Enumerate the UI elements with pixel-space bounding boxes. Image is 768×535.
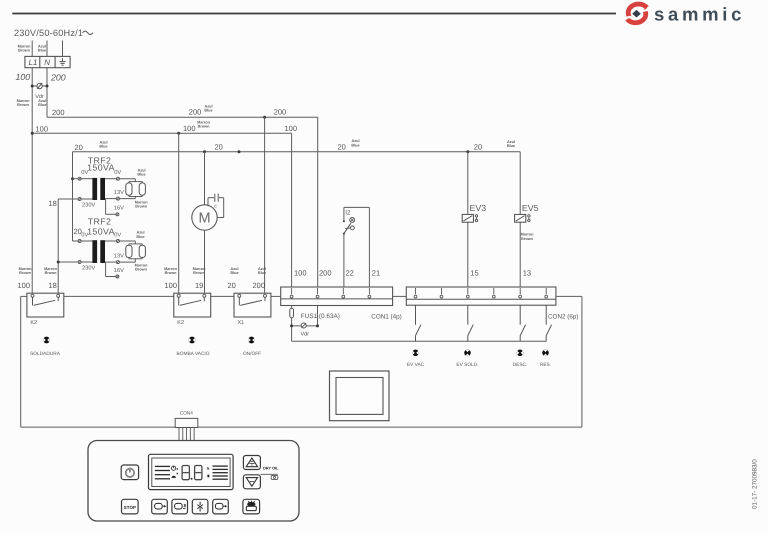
svg-text:EV5: EV5 — [522, 203, 539, 213]
svg-text:200: 200 — [50, 73, 66, 83]
svg-text:0V: 0V — [81, 170, 88, 176]
svg-text:0V: 0V — [114, 233, 121, 239]
svg-text:200: 200 — [319, 268, 332, 277]
svg-text:150VA: 150VA — [87, 226, 115, 236]
svg-text:Brown: Brown — [135, 205, 147, 209]
svg-text:13V: 13V — [114, 253, 124, 259]
svg-text:Blue: Blue — [258, 271, 266, 275]
svg-text:EV VAC: EV VAC — [407, 362, 425, 368]
svg-text:230V: 230V — [82, 203, 95, 209]
svg-text:18: 18 — [49, 199, 57, 208]
svg-text:DESC.: DESC. — [513, 362, 528, 368]
svg-text:Brown: Brown — [17, 103, 29, 107]
svg-text:FUS1 (0.63A): FUS1 (0.63A) — [301, 313, 340, 320]
svg-text:CON2 (6p): CON2 (6p) — [548, 313, 578, 320]
svg-text:20: 20 — [474, 143, 482, 152]
svg-text:200: 200 — [274, 107, 287, 116]
svg-text:Blue: Blue — [351, 143, 359, 147]
svg-text:I2: I2 — [345, 209, 351, 216]
svg-text:Brown: Brown — [19, 271, 31, 275]
svg-text:STOP: STOP — [124, 505, 136, 510]
svg-text:DRY OIL: DRY OIL — [263, 466, 279, 471]
svg-text:Vdr: Vdr — [301, 332, 310, 338]
svg-text:20: 20 — [215, 142, 223, 151]
svg-text:Blue: Blue — [230, 271, 238, 275]
svg-text:$: $ — [184, 503, 187, 508]
svg-text:Brown: Brown — [521, 237, 533, 241]
svg-text:EV SOLD.: EV SOLD. — [456, 362, 478, 368]
svg-text:0V: 0V — [81, 233, 88, 239]
svg-text:Brown: Brown — [45, 271, 57, 275]
svg-text:Blue: Blue — [38, 49, 46, 53]
svg-text:Brown: Brown — [193, 271, 205, 275]
svg-text:EV3: EV3 — [470, 203, 487, 213]
svg-text:200: 200 — [189, 107, 202, 116]
svg-text:100: 100 — [18, 281, 31, 290]
svg-text:200: 200 — [52, 108, 65, 117]
svg-text:sammic: sammic — [654, 4, 745, 25]
svg-text:CON1 (4p): CON1 (4p) — [371, 313, 401, 320]
svg-text:20: 20 — [338, 142, 346, 151]
svg-text:20: 20 — [228, 281, 236, 290]
svg-text:Blue: Blue — [204, 109, 212, 113]
svg-text:20: 20 — [75, 143, 83, 152]
svg-text:18: 18 — [49, 281, 57, 290]
svg-text:TRF2: TRF2 — [88, 217, 112, 227]
svg-text:100: 100 — [294, 268, 307, 277]
svg-text:SOLDADURA: SOLDADURA — [30, 351, 61, 357]
svg-text:N: N — [44, 58, 50, 67]
svg-text:RES.: RES. — [540, 362, 551, 368]
svg-text:L1: L1 — [29, 58, 38, 67]
svg-text:150VA: 150VA — [87, 162, 115, 172]
svg-text:M: M — [198, 211, 210, 227]
svg-text:100: 100 — [165, 281, 178, 290]
svg-text:21: 21 — [372, 268, 380, 277]
svg-text:Brown: Brown — [165, 271, 177, 275]
svg-text:Blue: Blue — [507, 144, 515, 148]
svg-text:Blue: Blue — [137, 173, 145, 177]
svg-text:13: 13 — [523, 268, 531, 277]
svg-text:c: c — [214, 203, 217, 209]
svg-text:13V: 13V — [114, 190, 124, 196]
svg-text:01-17- 2700983/0: 01-17- 2700983/0 — [752, 459, 759, 509]
svg-text:100: 100 — [36, 124, 49, 133]
svg-text:16V: 16V — [114, 268, 124, 274]
svg-text:Brown: Brown — [18, 49, 30, 53]
svg-text:CON4: CON4 — [180, 410, 193, 415]
svg-text:0V: 0V — [114, 170, 121, 176]
svg-text:230V: 230V — [82, 266, 95, 272]
svg-text:X1: X1 — [238, 320, 245, 326]
svg-text:K2: K2 — [177, 320, 184, 326]
svg-text:Brown: Brown — [135, 268, 147, 272]
svg-text:100: 100 — [16, 72, 31, 82]
svg-text:K2: K2 — [30, 320, 37, 326]
svg-text:200: 200 — [253, 281, 266, 290]
svg-text:230V/50-60Hz/1: 230V/50-60Hz/1 — [14, 28, 83, 38]
svg-text:Blue: Blue — [38, 103, 46, 107]
svg-text:16V: 16V — [114, 206, 124, 212]
svg-text:Brown: Brown — [198, 125, 210, 129]
svg-text:ON/OFF: ON/OFF — [243, 351, 261, 357]
svg-text:Blue: Blue — [136, 235, 144, 239]
svg-text:15: 15 — [470, 268, 478, 277]
svg-text:100: 100 — [183, 124, 196, 133]
svg-text:BOMBA VACIO: BOMBA VACIO — [177, 351, 210, 357]
svg-text:100: 100 — [285, 124, 298, 133]
svg-text:19: 19 — [195, 281, 203, 290]
svg-text:22: 22 — [346, 268, 354, 277]
svg-text:Blue: Blue — [99, 145, 107, 149]
